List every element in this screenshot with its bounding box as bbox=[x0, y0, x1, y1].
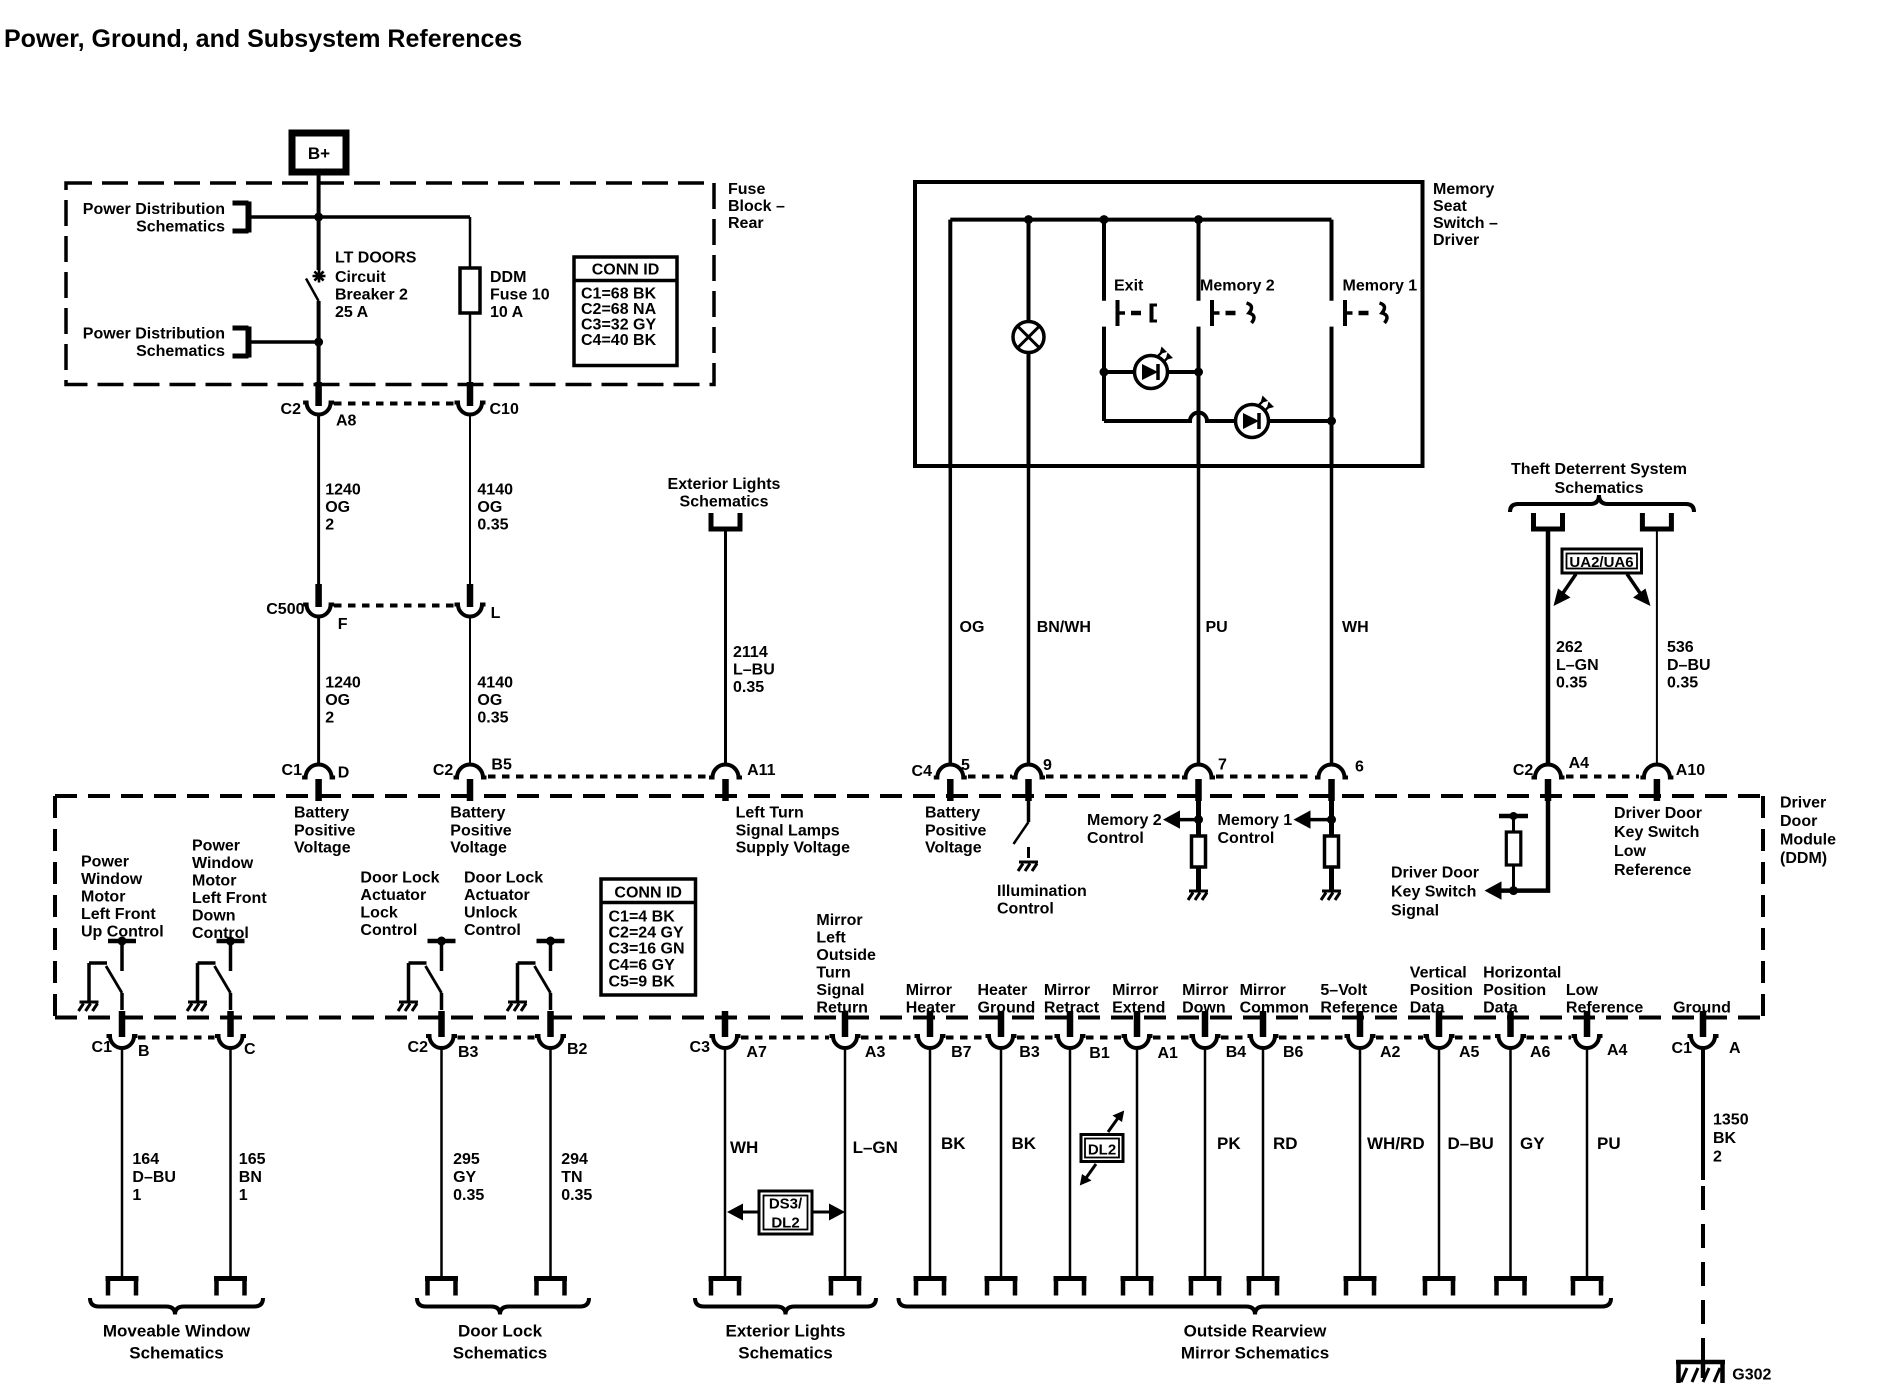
svg-text:Control: Control bbox=[1087, 830, 1144, 847]
svg-text:A2: A2 bbox=[1380, 1044, 1401, 1061]
svg-text:A: A bbox=[1729, 1040, 1741, 1057]
svg-text:C500: C500 bbox=[266, 601, 304, 618]
svg-text:Module: Module bbox=[1780, 832, 1836, 849]
svg-text:G302: G302 bbox=[1732, 1367, 1771, 1384]
svg-text:Control: Control bbox=[360, 922, 417, 939]
svg-text:Voltage: Voltage bbox=[294, 840, 351, 857]
svg-text:DDM: DDM bbox=[490, 269, 526, 286]
svg-text:Low: Low bbox=[1566, 982, 1599, 999]
svg-text:GY: GY bbox=[453, 1169, 476, 1186]
svg-text:Schematics: Schematics bbox=[136, 219, 225, 236]
svg-text:Key Switch: Key Switch bbox=[1391, 884, 1476, 901]
svg-text:WH: WH bbox=[1342, 619, 1369, 636]
svg-text:Voltage: Voltage bbox=[450, 840, 507, 857]
svg-text:0.35: 0.35 bbox=[1556, 675, 1587, 692]
svg-text:GY: GY bbox=[1520, 1134, 1545, 1153]
svg-text:Left Front: Left Front bbox=[81, 906, 156, 923]
svg-text:TN: TN bbox=[561, 1169, 582, 1186]
svg-text:A4: A4 bbox=[1607, 1042, 1628, 1059]
svg-text:Battery: Battery bbox=[294, 805, 349, 822]
svg-text:C2: C2 bbox=[408, 1039, 429, 1056]
svg-text:A11: A11 bbox=[747, 762, 776, 779]
svg-text:Fuse 10: Fuse 10 bbox=[490, 287, 550, 304]
svg-text:Memory: Memory bbox=[1433, 181, 1494, 198]
svg-text:0.35: 0.35 bbox=[453, 1187, 484, 1204]
svg-text:Data: Data bbox=[1483, 1000, 1518, 1017]
svg-text:OG: OG bbox=[477, 499, 502, 516]
svg-text:Supply Voltage: Supply Voltage bbox=[736, 840, 850, 857]
svg-text:Schematics: Schematics bbox=[738, 1344, 833, 1363]
svg-text:B: B bbox=[138, 1043, 150, 1060]
svg-text:2: 2 bbox=[325, 710, 334, 727]
svg-text:Left: Left bbox=[816, 930, 846, 947]
svg-text:Left Turn: Left Turn bbox=[736, 805, 804, 822]
svg-text:2: 2 bbox=[1713, 1149, 1722, 1166]
svg-text:C4=40 BK: C4=40 BK bbox=[581, 332, 657, 349]
svg-text:PU: PU bbox=[1597, 1134, 1621, 1153]
svg-text:Theft Deterrent System: Theft Deterrent System bbox=[1511, 461, 1687, 478]
svg-text:BK: BK bbox=[941, 1134, 966, 1153]
svg-text:B+: B+ bbox=[308, 144, 330, 163]
svg-text:1350: 1350 bbox=[1713, 1112, 1749, 1129]
svg-text:A6: A6 bbox=[1530, 1044, 1551, 1061]
svg-text:C4: C4 bbox=[912, 763, 933, 780]
svg-text:A10: A10 bbox=[1676, 762, 1705, 779]
svg-text:Reference: Reference bbox=[1566, 1000, 1643, 1017]
svg-text:C2=68 NA: C2=68 NA bbox=[581, 301, 657, 318]
svg-text:Window: Window bbox=[192, 855, 254, 872]
svg-text:C1=68 BK: C1=68 BK bbox=[581, 286, 657, 303]
svg-text:Mirror: Mirror bbox=[816, 912, 862, 929]
svg-text:WH: WH bbox=[730, 1138, 758, 1157]
svg-text:7: 7 bbox=[1218, 757, 1227, 774]
svg-text:Extend: Extend bbox=[1112, 1000, 1165, 1017]
svg-text:A8: A8 bbox=[336, 413, 357, 430]
svg-text:0.35: 0.35 bbox=[561, 1187, 592, 1204]
svg-text:Memory 1: Memory 1 bbox=[1218, 812, 1293, 829]
svg-text:Voltage: Voltage bbox=[925, 840, 982, 857]
svg-text:Up Control: Up Control bbox=[81, 924, 164, 941]
svg-text:Ground: Ground bbox=[1673, 1000, 1731, 1017]
svg-text:Actuator: Actuator bbox=[360, 887, 426, 904]
svg-text:Motor: Motor bbox=[192, 873, 236, 890]
svg-text:Signal: Signal bbox=[1391, 903, 1439, 920]
svg-text:A4: A4 bbox=[1569, 755, 1590, 772]
svg-text:Horizontal: Horizontal bbox=[1483, 965, 1561, 982]
svg-text:BN: BN bbox=[239, 1169, 262, 1186]
svg-text:C2: C2 bbox=[1513, 762, 1534, 779]
svg-text:C4=6 GY: C4=6 GY bbox=[609, 957, 676, 974]
svg-text:Retract: Retract bbox=[1044, 1000, 1100, 1017]
svg-text:A7: A7 bbox=[746, 1044, 767, 1061]
svg-text:5–Volt: 5–Volt bbox=[1320, 982, 1368, 999]
svg-text:Seat: Seat bbox=[1433, 198, 1467, 215]
svg-text:Power: Power bbox=[192, 838, 240, 855]
svg-text:Driver Door: Driver Door bbox=[1614, 805, 1702, 822]
svg-text:Key Switch: Key Switch bbox=[1614, 824, 1699, 841]
svg-text:262: 262 bbox=[1556, 639, 1583, 656]
svg-text:C1=4 BK: C1=4 BK bbox=[609, 909, 676, 926]
svg-text:RD: RD bbox=[1273, 1134, 1298, 1153]
svg-text:Illumination: Illumination bbox=[997, 883, 1087, 900]
svg-text:Signal: Signal bbox=[816, 982, 864, 999]
svg-text:Reference: Reference bbox=[1320, 1000, 1397, 1017]
svg-text:DL2: DL2 bbox=[771, 1215, 799, 1232]
svg-text:10 A: 10 A bbox=[490, 304, 524, 321]
svg-text:C3: C3 bbox=[690, 1039, 711, 1056]
svg-text:Power Distribution: Power Distribution bbox=[83, 201, 225, 218]
svg-text:165: 165 bbox=[239, 1151, 266, 1168]
svg-text:Circuit: Circuit bbox=[335, 269, 386, 286]
svg-text:Position: Position bbox=[1483, 982, 1546, 999]
svg-text:4140: 4140 bbox=[477, 482, 513, 499]
svg-text:B6: B6 bbox=[1283, 1044, 1304, 1061]
svg-text:0.35: 0.35 bbox=[1667, 675, 1698, 692]
svg-text:536: 536 bbox=[1667, 639, 1694, 656]
svg-text:Exit: Exit bbox=[1114, 278, 1144, 295]
svg-text:Control: Control bbox=[464, 922, 521, 939]
svg-text:4140: 4140 bbox=[477, 675, 513, 692]
svg-text:164: 164 bbox=[132, 1151, 159, 1168]
svg-text:Vertical: Vertical bbox=[1410, 965, 1467, 982]
svg-text:Schematics: Schematics bbox=[129, 1344, 224, 1363]
svg-text:Schematics: Schematics bbox=[1555, 480, 1644, 497]
svg-text:(DDM): (DDM) bbox=[1780, 850, 1827, 867]
svg-text:Down: Down bbox=[192, 908, 236, 925]
svg-text:C2: C2 bbox=[433, 762, 454, 779]
svg-text:F: F bbox=[338, 616, 348, 633]
svg-text:0.35: 0.35 bbox=[477, 710, 508, 727]
svg-text:Mirror Schematics: Mirror Schematics bbox=[1181, 1344, 1329, 1363]
svg-text:Memory 2: Memory 2 bbox=[1087, 812, 1162, 829]
svg-text:Return: Return bbox=[816, 1000, 868, 1017]
svg-text:0.35: 0.35 bbox=[477, 517, 508, 534]
svg-text:Mirror: Mirror bbox=[1112, 982, 1158, 999]
svg-text:A5: A5 bbox=[1459, 1044, 1480, 1061]
svg-text:CONN ID: CONN ID bbox=[614, 885, 682, 902]
svg-text:C1: C1 bbox=[92, 1039, 113, 1056]
svg-text:A3: A3 bbox=[865, 1044, 886, 1061]
svg-text:Motor: Motor bbox=[81, 889, 125, 906]
svg-text:Exterior Lights: Exterior Lights bbox=[668, 476, 781, 493]
svg-text:Down: Down bbox=[1182, 1000, 1226, 1017]
svg-text:Heater: Heater bbox=[906, 1000, 956, 1017]
svg-text:Outside Rearview: Outside Rearview bbox=[1184, 1322, 1327, 1341]
svg-text:1: 1 bbox=[132, 1187, 141, 1204]
svg-text:2: 2 bbox=[325, 517, 334, 534]
svg-text:B4: B4 bbox=[1226, 1044, 1247, 1061]
svg-text:B7: B7 bbox=[951, 1044, 972, 1061]
svg-text:DS3/: DS3/ bbox=[769, 1196, 803, 1213]
svg-text:1240: 1240 bbox=[325, 482, 361, 499]
svg-text:Low: Low bbox=[1614, 843, 1647, 860]
svg-text:C: C bbox=[244, 1041, 256, 1058]
svg-text:Window: Window bbox=[81, 871, 143, 888]
svg-text:OG: OG bbox=[325, 692, 350, 709]
svg-text:Block –: Block – bbox=[728, 198, 785, 215]
svg-text:Unlock: Unlock bbox=[464, 905, 517, 922]
svg-text:OG: OG bbox=[325, 499, 350, 516]
svg-text:Control: Control bbox=[997, 901, 1054, 918]
svg-text:L–GN: L–GN bbox=[853, 1138, 898, 1157]
svg-text:1: 1 bbox=[239, 1187, 248, 1204]
svg-text:PK: PK bbox=[1217, 1134, 1241, 1153]
svg-text:6: 6 bbox=[1355, 759, 1364, 776]
svg-text:Common: Common bbox=[1240, 1000, 1309, 1017]
svg-text:Door: Door bbox=[1780, 813, 1817, 830]
svg-text:2114: 2114 bbox=[733, 644, 768, 661]
svg-text:OG: OG bbox=[960, 619, 985, 636]
svg-text:Memory 1: Memory 1 bbox=[1343, 278, 1418, 295]
svg-text:WH/RD: WH/RD bbox=[1367, 1134, 1425, 1153]
svg-text:B5: B5 bbox=[491, 757, 512, 774]
svg-text:Positive: Positive bbox=[450, 823, 511, 840]
svg-text:C3=16 GN: C3=16 GN bbox=[609, 941, 685, 958]
svg-text:0.35: 0.35 bbox=[733, 679, 764, 696]
svg-text:C3=32 GY: C3=32 GY bbox=[581, 317, 656, 334]
svg-text:Mirror: Mirror bbox=[1240, 982, 1286, 999]
svg-text:LT DOORS: LT DOORS bbox=[335, 250, 417, 267]
svg-text:Driver: Driver bbox=[1780, 795, 1826, 812]
svg-text:C1: C1 bbox=[1672, 1040, 1693, 1057]
svg-text:Control: Control bbox=[1218, 830, 1275, 847]
svg-text:Battery: Battery bbox=[450, 805, 505, 822]
svg-text:294: 294 bbox=[561, 1151, 588, 1168]
svg-text:D–BU: D–BU bbox=[1448, 1134, 1494, 1153]
svg-text:L–GN: L–GN bbox=[1556, 657, 1599, 674]
svg-text:D: D bbox=[338, 765, 350, 782]
svg-text:B1: B1 bbox=[1089, 1045, 1110, 1062]
svg-text:Position: Position bbox=[1410, 982, 1473, 999]
svg-text:Ground: Ground bbox=[978, 1000, 1036, 1017]
svg-text:Turn: Turn bbox=[816, 965, 850, 982]
svg-text:Door Lock: Door Lock bbox=[464, 870, 543, 887]
svg-text:Signal Lamps: Signal Lamps bbox=[736, 823, 840, 840]
svg-text:295: 295 bbox=[453, 1151, 480, 1168]
svg-text:Positive: Positive bbox=[294, 823, 355, 840]
svg-text:A1: A1 bbox=[1158, 1045, 1179, 1062]
svg-text:Door Lock: Door Lock bbox=[458, 1322, 543, 1341]
svg-text:5: 5 bbox=[961, 757, 970, 774]
svg-text:BN/WH: BN/WH bbox=[1037, 619, 1091, 636]
svg-text:D–BU: D–BU bbox=[1667, 657, 1711, 674]
svg-text:Left Front: Left Front bbox=[192, 890, 267, 907]
svg-text:C5=9 BK: C5=9 BK bbox=[609, 974, 676, 991]
svg-text:Power Distribution: Power Distribution bbox=[83, 326, 225, 343]
svg-text:Battery: Battery bbox=[925, 805, 980, 822]
svg-text:BK: BK bbox=[1012, 1134, 1037, 1153]
svg-text:Rear: Rear bbox=[728, 215, 764, 232]
svg-text:Driver: Driver bbox=[1433, 232, 1479, 249]
svg-text:BK: BK bbox=[1713, 1130, 1737, 1147]
svg-text:Mirror: Mirror bbox=[1182, 982, 1228, 999]
svg-text:UA2/UA6: UA2/UA6 bbox=[1569, 554, 1633, 571]
svg-text:Lock: Lock bbox=[360, 905, 397, 922]
svg-text:Reference: Reference bbox=[1614, 862, 1691, 879]
svg-text:Control: Control bbox=[192, 925, 249, 942]
svg-text:Power, Ground, and Subsystem R: Power, Ground, and Subsystem References bbox=[4, 25, 522, 53]
svg-text:C1: C1 bbox=[282, 762, 303, 779]
svg-text:Driver Door: Driver Door bbox=[1391, 865, 1479, 882]
svg-text:Outside: Outside bbox=[816, 947, 876, 964]
svg-text:L: L bbox=[491, 605, 501, 622]
svg-text:Fuse: Fuse bbox=[728, 181, 765, 198]
svg-text:25 A: 25 A bbox=[335, 304, 369, 321]
svg-text:Actuator: Actuator bbox=[464, 887, 530, 904]
svg-text:B3: B3 bbox=[1019, 1044, 1040, 1061]
svg-text:Breaker 2: Breaker 2 bbox=[335, 287, 408, 304]
svg-text:1240: 1240 bbox=[325, 675, 361, 692]
svg-text:L–BU: L–BU bbox=[733, 662, 775, 679]
svg-text:Moveable Window: Moveable Window bbox=[103, 1322, 251, 1341]
svg-text:Power: Power bbox=[81, 854, 129, 871]
svg-text:Door Lock: Door Lock bbox=[360, 870, 439, 887]
svg-text:D–BU: D–BU bbox=[132, 1169, 176, 1186]
svg-text:DL2: DL2 bbox=[1088, 1142, 1116, 1159]
svg-text:9: 9 bbox=[1043, 757, 1052, 774]
svg-text:Exterior Lights: Exterior Lights bbox=[726, 1322, 846, 1341]
svg-text:Mirror: Mirror bbox=[1044, 982, 1090, 999]
svg-text:Schematics: Schematics bbox=[453, 1344, 548, 1363]
svg-text:Schematics: Schematics bbox=[136, 343, 225, 360]
svg-text:C10: C10 bbox=[490, 401, 519, 418]
svg-text:Heater: Heater bbox=[978, 982, 1028, 999]
svg-text:Positive: Positive bbox=[925, 823, 986, 840]
svg-text:B2: B2 bbox=[567, 1041, 588, 1058]
svg-text:Switch –: Switch – bbox=[1433, 215, 1498, 232]
svg-text:Mirror: Mirror bbox=[906, 982, 952, 999]
svg-text:C2: C2 bbox=[281, 401, 302, 418]
svg-text:CONN ID: CONN ID bbox=[592, 262, 660, 279]
svg-text:PU: PU bbox=[1206, 619, 1228, 636]
svg-text:OG: OG bbox=[477, 692, 502, 709]
svg-text:Data: Data bbox=[1410, 1000, 1445, 1017]
svg-text:B3: B3 bbox=[458, 1044, 479, 1061]
svg-text:Schematics: Schematics bbox=[680, 494, 769, 511]
svg-text:C2=24 GY: C2=24 GY bbox=[609, 925, 684, 942]
svg-text:Memory 2: Memory 2 bbox=[1200, 278, 1275, 295]
